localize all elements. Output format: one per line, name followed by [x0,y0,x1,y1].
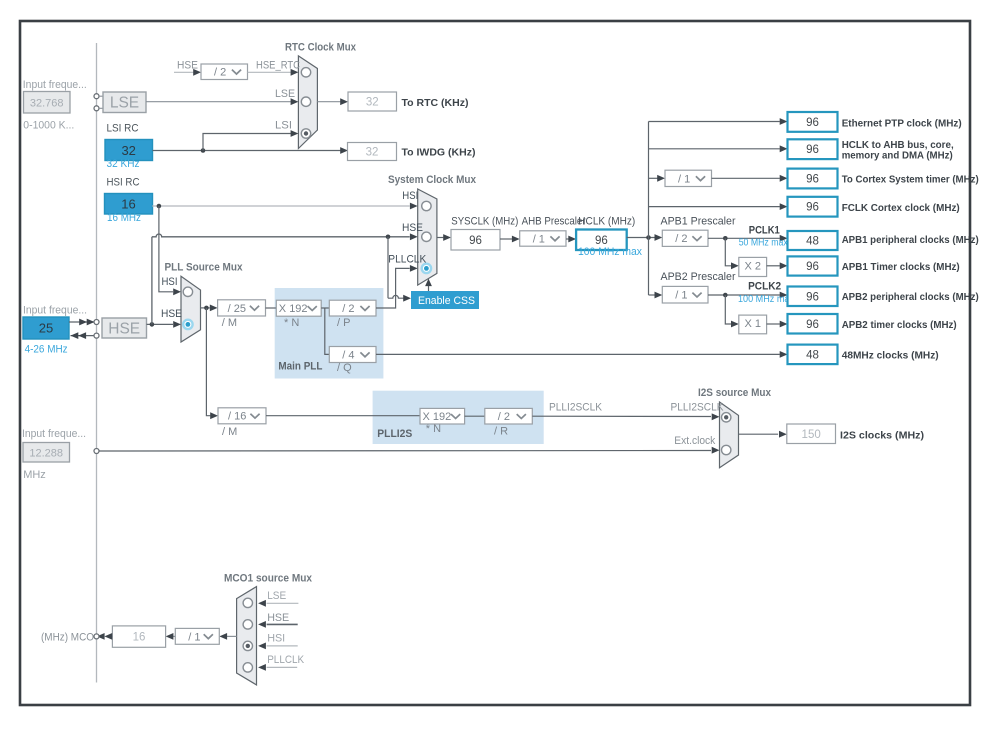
wire /16 to PLLI2S xN [266,415,420,417]
svg-text:X 2: X 2 [744,261,761,273]
wire APB1 branch to X2 multiplier [725,238,731,265]
PLL mux radio HSI [183,287,192,296]
I2S mux radio Ext clock [722,445,731,454]
Enable CSS button [411,291,479,309]
svg-text:32 KHz: 32 KHz [107,158,140,170]
wire xN to /P divider with branch to /Q [321,307,329,309]
wire PLLI2SCLK to I2S mux [532,415,711,417]
svg-text:X 192: X 192 [423,411,452,423]
multiplier X192 dropdown PLLI2S [420,408,465,424]
svg-text:12.288: 12.288 [29,448,63,460]
svg-text:APB1 Prescaler: APB1 Prescaler [661,215,736,227]
wire HSE stub MCO [267,623,298,625]
svg-text:System Clock Mux: System Clock Mux [388,174,477,186]
svg-text:/ P: / P [337,317,350,329]
To IWDG value box [348,143,397,161]
svg-text:/ 2: / 2 [342,303,354,315]
svg-text:25: 25 [39,321,53,336]
wire AHB prescaler to HCLK box [566,238,569,240]
svg-text:96: 96 [806,319,819,331]
HSE osc-out wire with double arrows [71,335,95,337]
svg-text:48: 48 [806,349,819,361]
svg-text:100 MHz max: 100 MHz max [578,246,642,258]
LSI RC 32 box [105,140,153,161]
svg-text:FCLK Cortex clock (MHz): FCLK Cortex clock (MHz) [842,202,960,214]
svg-text:48: 48 [806,236,819,248]
wire trunk to HCLK AHB box [649,148,780,150]
svg-text:To IWDG (KHz): To IWDG (KHz) [402,147,476,159]
wire MCO 16 box to rail with double arrows [110,635,113,637]
svg-text:96: 96 [806,144,819,156]
wire trunk to APB2 prescaler [649,294,655,296]
svg-text:96: 96 [469,235,482,247]
svg-text:32: 32 [366,147,379,159]
svg-text:MCO1 source Mux: MCO1 source Mux [224,572,313,584]
svg-text:PLLI2SCLK: PLLI2SCLK [549,401,603,413]
svg-text:To Cortex System timer (MHz): To Cortex System timer (MHz) [842,174,979,186]
svg-text:I2S clocks (MHz): I2S clocks (MHz) [840,430,924,442]
svg-text:PLLI2SCLK: PLLI2SCLK [671,401,725,413]
svg-text:32: 32 [121,143,135,158]
svg-text:HSI: HSI [267,632,285,644]
MCO mux radio HSI selected [243,641,252,650]
APB2 peripheral value box 96 [788,287,838,307]
PLL source mux shape [181,276,201,342]
Cortex timer value box 96 [788,169,838,189]
wire system mux output to SYSCLK box [437,237,444,239]
svg-text:HSE: HSE [161,308,182,320]
svg-text:96: 96 [806,261,819,273]
svg-text:LSE: LSE [275,88,295,100]
svg-text:/ 2: / 2 [214,67,226,79]
Main PLL panel [275,288,384,379]
48MHz clocks value box 48 [788,345,838,365]
svg-text:Enable CSS: Enable CSS [418,295,475,307]
wire SYSCLK to AHB prescaler [500,238,512,240]
svg-text:/ 1: / 1 [533,233,545,245]
svg-text:/ 2: / 2 [498,411,510,423]
RTC clock mux shape [298,56,317,149]
rail connector circles HSE [94,320,99,325]
wire PLLCLK stub MCO [267,666,298,668]
svg-text:LSI RC: LSI RC [107,122,139,134]
svg-text:PLLCLK: PLLCLK [267,654,305,666]
MCO mux radio LSE [243,598,252,607]
svg-text:HSI RC: HSI RC [107,177,140,189]
svg-text:(MHz) MCO: (MHz) MCO [41,632,94,644]
svg-text:96: 96 [595,235,608,247]
wire /1 to MCO 16 box [173,635,175,637]
PLLI2S panel [373,391,544,444]
svg-text:RTC Clock Mux: RTC Clock Mux [285,42,357,54]
svg-text:16: 16 [121,197,135,212]
X2 multiplier box [739,257,767,276]
svg-text:LSE: LSE [267,590,286,602]
wire APB1 prescaler to PCLK1 box [708,237,780,239]
SYSCLK value box 96 [451,230,500,251]
FCLK value box 96 [788,197,838,217]
input box 12.288 [23,443,70,463]
svg-text:16 MHz: 16 MHz [107,212,141,224]
svg-text:HSI: HSI [402,190,418,202]
svg-text:To RTC (KHz): To RTC (KHz) [402,97,469,109]
X1 multiplier box [739,315,767,334]
svg-text:Main PLL: Main PLL [278,361,322,373]
svg-text:HSE: HSE [402,222,423,234]
wire APB2 prescaler to PCLK2 box [708,294,780,296]
svg-text:/ 4: / 4 [342,349,354,361]
svg-text:PLLCLK: PLLCLK [388,253,427,265]
svg-text:Ext.clock: Ext.clock [674,435,715,447]
svg-text:16: 16 [133,632,146,644]
svg-text:4-26 MHz: 4-26 MHz [25,344,68,356]
divider /4 dropdown (/Q) [329,347,376,363]
wire HSE_RTC to RTC mux [248,71,292,73]
system clock mux shape [418,189,437,285]
wire HSI to system clock mux [152,205,410,207]
wire X1 to APB2 timer box [767,323,780,325]
svg-text:MHz: MHz [23,469,46,481]
wire trunk to Ethernet PTP box [649,121,780,123]
wire HSI stub MCO [267,645,298,647]
svg-text:LSE: LSE [110,95,139,112]
svg-text:/ 16: / 16 [228,411,246,423]
HSI RC 16 box [105,194,153,215]
rail connector circles LSE [94,94,99,99]
Ethernet PTP value box 96 [788,112,838,132]
wire LSI to IWDG and branch to RTC mux [153,150,342,152]
wire trunk to FCLK box [649,206,780,208]
wire HSE to /2 RTC divider [174,71,194,73]
svg-text:APB1 Timer clocks (MHz): APB1 Timer clocks (MHz) [842,261,960,273]
svg-text:PLL Source Mux: PLL Source Mux [165,262,244,274]
MCO 16 value box [112,626,165,647]
wire HSE branch down to Enable CSS with hop [387,237,389,298]
To RTC value box [348,92,397,111]
HSE osc-in wire with double arrows [69,321,94,323]
divider /2 dropdown (/P) [329,300,376,316]
svg-text:/ 25: / 25 [228,303,246,315]
svg-text:96: 96 [806,174,819,186]
system mux radio PLLCLK selected [422,264,431,273]
RTC mux radio LSE [301,97,310,106]
wire MCO mux output to /1 divider [227,635,237,637]
svg-text:memory and DMA (MHz): memory and DMA (MHz) [842,149,953,161]
input box 25 (HSE) [23,317,69,339]
svg-text:/ 1: / 1 [675,290,687,302]
wire RTC mux output to To RTC box [317,101,341,103]
HSE oscillator block [102,318,147,338]
svg-text:0-1000 K...: 0-1000 K... [23,120,74,132]
wire LSE to RTC mux [146,101,291,103]
svg-text:LSI: LSI [275,119,292,131]
wire HSE out of block [147,323,174,325]
svg-text:PCLK1: PCLK1 [749,225,780,237]
MCO mux radio HSE [243,620,252,629]
wire PLL mux output to /M divider [201,307,210,309]
svg-text:/ M: / M [222,317,237,329]
svg-text:96: 96 [806,117,819,129]
cortex /1 divider dropdown [665,170,712,186]
APB2 timer value box 96 [788,314,838,334]
AHB prescaler /1 dropdown [520,231,566,246]
svg-text:HSE: HSE [267,612,289,624]
wire LSE stub MCO [267,602,299,604]
svg-text:HSE: HSE [108,320,140,337]
svg-text:SYSCLK (MHz): SYSCLK (MHz) [451,215,518,227]
input box 32.768 [24,92,71,114]
svg-text:HSE_RTC: HSE_RTC [256,60,300,72]
I2S clocks value box 150 [787,424,836,444]
svg-text:APB2 Prescaler: APB2 Prescaler [661,271,736,283]
svg-text:Input freque...: Input freque... [23,305,87,317]
svg-text:Ethernet PTP clock (MHz): Ethernet PTP clock (MHz) [842,117,962,129]
LSE oscillator block [99,95,103,97]
wire branch down to PLLI2S /M divider [206,308,210,416]
svg-text:150: 150 [802,429,821,441]
svg-text:* N: * N [284,317,299,329]
wire I2S mux output to I2S clocks box [739,433,779,435]
svg-text:/ R: / R [494,425,508,437]
MCO /1 divider dropdown [175,628,219,644]
svg-text:APB1 peripheral clocks (MHz): APB1 peripheral clocks (MHz) [842,234,979,246]
divider /25 dropdown (/M) [218,300,266,316]
svg-text:* N: * N [426,423,441,435]
wire PLLI2S xN to /R [465,415,485,417]
rail connector circle ext clock [94,449,99,454]
PLL mux radio HSE selected [183,320,192,329]
wire /Q output to 48MHz clocks [376,353,780,355]
wire APB2 branch to X1 multiplier [725,295,731,324]
divider /2 dropdown (/R) [485,408,533,424]
rail connector circle MCO [94,634,99,639]
svg-text:96: 96 [806,202,819,214]
wire /P output to PLLCLK [376,268,410,308]
MCO1 source mux shape [237,587,257,685]
I2S mux radio PLLI2SCLK selected [722,413,731,422]
wire X2 to APB1 timer box [767,265,780,267]
svg-text:/ 1: / 1 [678,173,690,185]
multiplier X192 dropdown (*N) [276,300,321,316]
APB1 timer value box 96 [788,256,838,275]
I2S source mux shape [720,402,739,468]
svg-text:PCLK2: PCLK2 [748,281,781,293]
svg-text:HSI: HSI [162,276,178,288]
HCLK distribution trunk [648,122,650,296]
svg-text:AHB Prescaler: AHB Prescaler [522,215,586,227]
wire ext clock to I2S mux [99,450,711,453]
svg-text:/ 1: / 1 [188,631,200,643]
HCLK value box 96 blue [576,230,627,251]
wire HCLK to trunk and APB1 prescaler [627,237,655,239]
svg-text:/ 2: / 2 [675,233,687,245]
svg-text:/ Q: / Q [337,362,352,374]
svg-text:I2S source Mux: I2S source Mux [698,387,772,399]
wire HSE branch up to system clock mux with hop [151,237,153,325]
svg-text:X 192: X 192 [279,303,308,315]
wire /M to xN multiplier [266,307,277,309]
wire trunk to cortex divider [649,177,658,179]
svg-text:APB2 timer clocks (MHz): APB2 timer clocks (MHz) [842,319,957,331]
svg-text:APB2 peripheral clocks (MHz): APB2 peripheral clocks (MHz) [842,291,979,303]
APB2 prescaler /1 dropdown [662,286,708,303]
svg-text:96: 96 [806,291,819,303]
svg-text:32: 32 [366,97,379,109]
svg-text:PLLI2S: PLLI2S [377,428,412,440]
MCO mux radio PLLCLK [243,663,252,672]
wire Enable CSS up into mux [428,285,430,291]
APB1 prescaler /2 dropdown [662,230,708,246]
svg-text:/ M: / M [222,426,237,438]
wire HSI branch down to PLL source mux [159,206,173,292]
svg-text:Input freque...: Input freque... [23,79,87,91]
RTC mux radio LSI selected [301,129,310,138]
svg-text:100 MHz max: 100 MHz max [738,293,795,305]
divider /16 dropdown (PLLI2S /M) [218,408,266,424]
svg-text:HCLK (MHz): HCLK (MHz) [578,215,635,227]
svg-text:48MHz clocks (MHz): 48MHz clocks (MHz) [842,350,939,362]
system mux radio HSI [422,201,431,210]
wire cortex divider to box [712,177,780,179]
HCLK AHB value box 96 [788,139,838,159]
svg-text:Input freque...: Input freque... [22,428,86,440]
svg-text:50 MHz max: 50 MHz max [739,237,789,249]
svg-text:32.768: 32.768 [30,98,64,110]
RTC mux radio HSE_RTC [301,68,310,77]
left vertical clock rail [96,43,98,683]
divider /2 HSE_RTC dropdown [201,64,248,80]
APB1 peripheral value box 48 [788,231,838,250]
system mux radio HSE [422,232,431,241]
svg-text:X 1: X 1 [744,318,761,330]
